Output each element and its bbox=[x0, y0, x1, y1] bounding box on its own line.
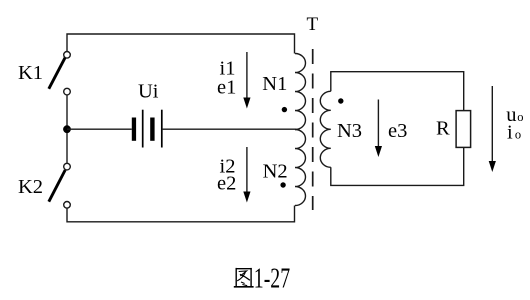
svg-text:N3: N3 bbox=[337, 120, 362, 142]
winding N3 (secondary, 4 turns) bbox=[320, 91, 331, 167]
resistor R (load) bbox=[456, 111, 471, 148]
wire: battery positive to primary centre tap bbox=[162, 128, 296, 130]
svg-text:N2: N2 bbox=[263, 161, 288, 183]
wire: secondary bottom to load bbox=[331, 147, 464, 185]
battery Ui (two cells) bbox=[132, 110, 162, 148]
svg-text:e1: e1 bbox=[217, 76, 236, 98]
wire: left vertical between K1 and K2 bbox=[66, 95, 68, 163]
polarity dot N1 bbox=[282, 107, 287, 112]
wire: bottom conductor from K2 across to primary bottom bbox=[67, 206, 295, 222]
svg-text:o: o bbox=[517, 110, 523, 124]
polarity dot N2 bbox=[280, 182, 285, 187]
svg-text:K2: K2 bbox=[18, 176, 43, 198]
switch K2 bbox=[49, 163, 71, 208]
label uo bbox=[506, 104, 523, 126]
svg-text:e3: e3 bbox=[388, 120, 407, 142]
svg-text:T: T bbox=[307, 14, 319, 35]
arrow uo/io (output, down) bbox=[489, 86, 496, 172]
label io bbox=[507, 122, 521, 144]
winding N1 (primary upper, 4 turns) bbox=[295, 54, 306, 130]
svg-text:N1: N1 bbox=[262, 73, 287, 95]
svg-text:1-27: 1-27 bbox=[254, 263, 290, 294]
svg-text:e2: e2 bbox=[217, 173, 236, 195]
caption: character 图 (drawn) bbox=[234, 268, 254, 287]
arrow i1/e1 (current direction, down) bbox=[243, 52, 250, 109]
svg-text:Ui: Ui bbox=[138, 81, 159, 103]
arrow e3 (emf direction, down) bbox=[375, 100, 382, 158]
wire: secondary top to load bbox=[331, 72, 464, 111]
winding N2 (primary lower, 4 turns) bbox=[295, 130, 306, 206]
polarity dot N3 bbox=[338, 98, 343, 103]
svg-text:i: i bbox=[507, 122, 513, 144]
node: junction dot at battery tap bbox=[63, 125, 71, 133]
transformer core (dashed line) bbox=[312, 49, 314, 210]
svg-text:R: R bbox=[436, 118, 450, 140]
wire: top conductor from K1 up and across to primary top bbox=[67, 34, 295, 54]
wire: junction to battery negative plate bbox=[67, 128, 132, 130]
arrow i2/e2 (current direction, down) bbox=[243, 147, 250, 203]
svg-text:K1: K1 bbox=[18, 62, 43, 84]
svg-text:o: o bbox=[515, 128, 521, 142]
switch K1 bbox=[49, 52, 71, 95]
